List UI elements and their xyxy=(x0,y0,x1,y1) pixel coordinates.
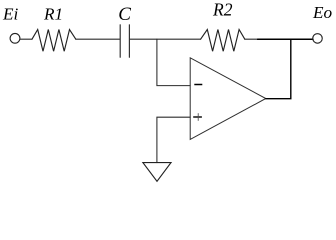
svg-text:C: C xyxy=(118,4,131,25)
resistor R1 xyxy=(32,30,76,52)
wire to output terminal (bold) xyxy=(258,38,313,40)
svg-text:R1: R1 xyxy=(43,5,63,24)
wire R2 toward output xyxy=(245,38,258,40)
svg-text:R2: R2 xyxy=(212,0,233,19)
wire C to R2 xyxy=(130,38,201,40)
wire op-amp output (bold) xyxy=(266,39,291,98)
node A: junction drop to inverting input xyxy=(157,39,190,85)
capacitor C left plate xyxy=(119,25,121,57)
wire R1 to C xyxy=(76,38,120,40)
output terminal Eo xyxy=(313,34,323,44)
resistor R2 xyxy=(201,30,245,52)
op-amp plus sign xyxy=(193,113,202,121)
ground xyxy=(143,163,171,182)
op-amp U1 xyxy=(190,58,266,140)
op-amp minus sign xyxy=(194,84,202,86)
svg-text:Ei: Ei xyxy=(2,5,18,24)
svg-text:Eo: Eo xyxy=(312,3,332,22)
wire plus input to ground xyxy=(157,117,190,162)
input terminal Ei xyxy=(10,33,20,43)
capacitor C right plate xyxy=(128,25,130,57)
wire input to R1 xyxy=(20,38,32,40)
